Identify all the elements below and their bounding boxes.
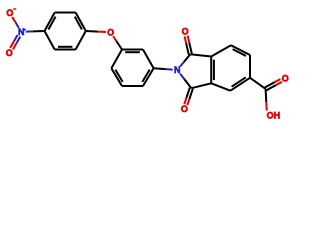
svg-text:N: N xyxy=(18,27,25,37)
svg-text:OH: OH xyxy=(267,110,281,120)
svg-text:O: O xyxy=(282,74,289,84)
svg-text:N: N xyxy=(174,65,181,75)
svg-text:O: O xyxy=(181,104,188,114)
svg-text:O: O xyxy=(6,48,13,58)
svg-text:O: O xyxy=(107,28,114,38)
svg-text:O: O xyxy=(6,8,13,18)
svg-text:O: O xyxy=(182,27,189,37)
